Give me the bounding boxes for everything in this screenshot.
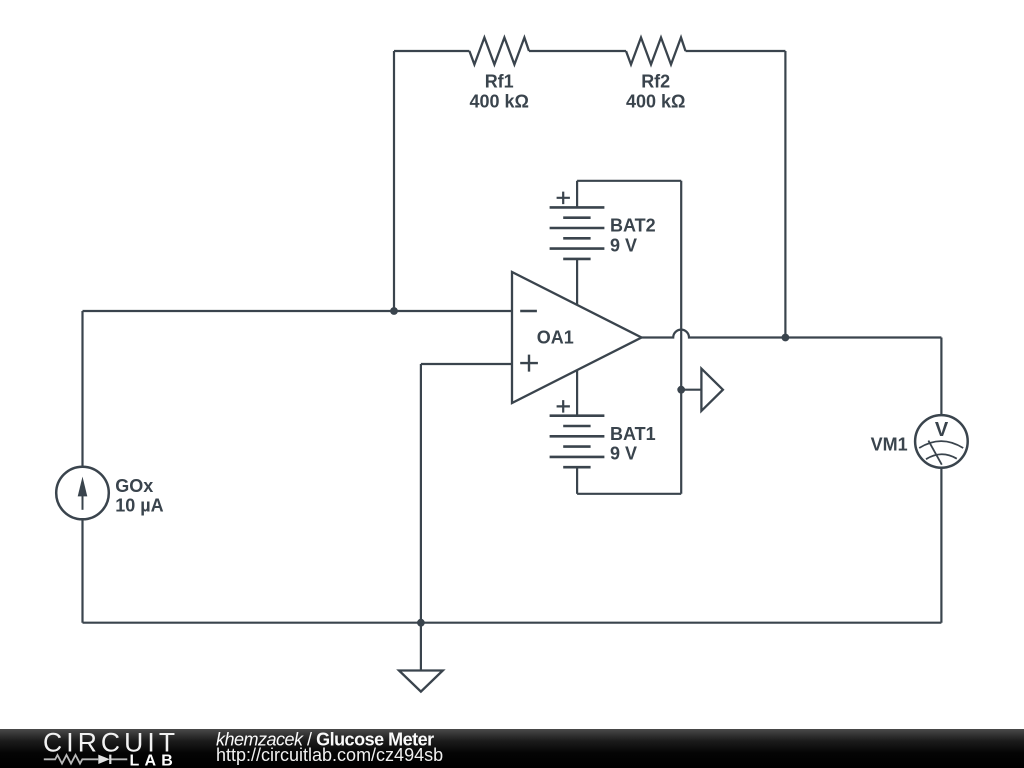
- wire output with hop over supply wire: [642, 330, 942, 338]
- wire top feedback left segment: [394, 50, 469, 52]
- svg-text:V: V: [935, 419, 949, 441]
- battery BAT2 plus sign: [557, 192, 570, 205]
- node feedback junction: [390, 307, 398, 315]
- wire VM1 bottom vertical: [940, 468, 942, 623]
- wire supply bottom horizontal: [577, 493, 681, 495]
- wire bottom rail: [83, 622, 942, 624]
- voltmeter VM1 scale arcs: [919, 441, 963, 448]
- current source GOx circle: [56, 467, 109, 520]
- svg-text:LAB: LAB: [130, 752, 178, 768]
- svg-text:400 kΩ: 400 kΩ: [469, 92, 528, 112]
- svg-text:VM1: VM1: [871, 434, 908, 454]
- wire GOx top vertical: [81, 311, 83, 467]
- svg-text:9 V: 9 V: [610, 444, 637, 464]
- svg-text:Rf1: Rf1: [485, 72, 514, 92]
- ground: [399, 671, 443, 692]
- node annotation junction: [677, 386, 685, 394]
- wire inverting input horizontal: [83, 310, 513, 312]
- wire supply top horizontal: [577, 180, 681, 182]
- wire feedback right vertical: [784, 51, 786, 338]
- wire BAT1 bottom vertical: [576, 467, 578, 494]
- voltmeter VM1 needle: [928, 441, 941, 465]
- wire feedback left vertical: [393, 51, 395, 311]
- wire BAT2 top vertical: [576, 181, 578, 208]
- resistor Rf2: [626, 38, 686, 65]
- wire output annotation stub: [681, 389, 701, 391]
- svg-text:10 µA: 10 µA: [115, 496, 163, 516]
- svg-text:BAT2: BAT2: [610, 216, 656, 236]
- battery BAT1 plates: [550, 416, 605, 468]
- wire noninverting input horizontal: [421, 363, 512, 365]
- op-amp OA1 plus input sign: [520, 355, 538, 372]
- op-amp OA1 minus input sign: [520, 310, 537, 312]
- resistor Rf1: [469, 38, 529, 65]
- wire noninverting input vertical: [420, 364, 422, 623]
- op-amp OA1 triangle: [512, 272, 642, 403]
- svg-text:OA1: OA1: [537, 327, 574, 347]
- node output junction: [782, 334, 790, 342]
- wire top feedback right segment: [686, 50, 786, 52]
- svg-text:http://circuitlab.com/cz494sb: http://circuitlab.com/cz494sb: [216, 745, 443, 765]
- voltmeter VM1 circle: [915, 415, 968, 468]
- battery BAT1 plus sign: [557, 400, 570, 413]
- wire ground stem: [420, 623, 422, 671]
- wire GOx bottom vertical: [81, 519, 83, 623]
- battery BAT2 plates: [550, 207, 605, 259]
- current source GOx arrow: [82, 492, 84, 510]
- node ground junction: [417, 619, 425, 627]
- output annotation arrow: [701, 369, 723, 411]
- svg-text:400 kΩ: 400 kΩ: [626, 92, 685, 112]
- svg-text:9 V: 9 V: [610, 236, 637, 256]
- wire VM1 top vertical: [940, 338, 942, 416]
- svg-text:Rf2: Rf2: [641, 72, 670, 92]
- wire between Rf1 and Rf2: [529, 50, 626, 52]
- wire BAT2 to op-amp vertical: [576, 259, 578, 305]
- wire op-amp to BAT1 vertical: [576, 370, 578, 416]
- wire supply right vertical: [680, 181, 682, 494]
- footer logo resistor-diode squiggle: [44, 755, 128, 764]
- svg-text:BAT1: BAT1: [610, 424, 656, 444]
- svg-text:GOx: GOx: [115, 476, 153, 496]
- footer bar: [0, 729, 1024, 768]
